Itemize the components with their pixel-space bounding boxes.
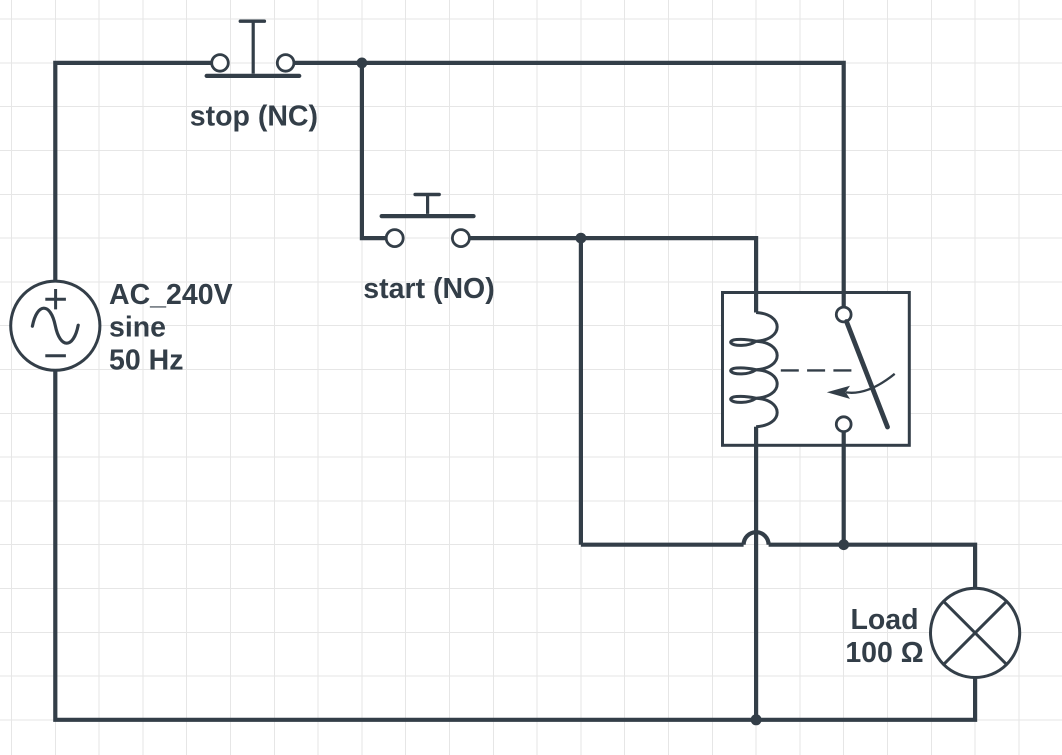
svg-text:100 Ω: 100 Ω bbox=[845, 637, 923, 669]
svg-text:start (NO): start (NO) bbox=[363, 273, 494, 305]
svg-text:stop (NC): stop (NC) bbox=[190, 101, 318, 133]
svg-text:sine: sine bbox=[109, 312, 166, 344]
svg-text:AC_240V: AC_240V bbox=[109, 279, 233, 311]
svg-text:50 Hz: 50 Hz bbox=[109, 344, 183, 376]
svg-text:Load: Load bbox=[850, 604, 918, 636]
